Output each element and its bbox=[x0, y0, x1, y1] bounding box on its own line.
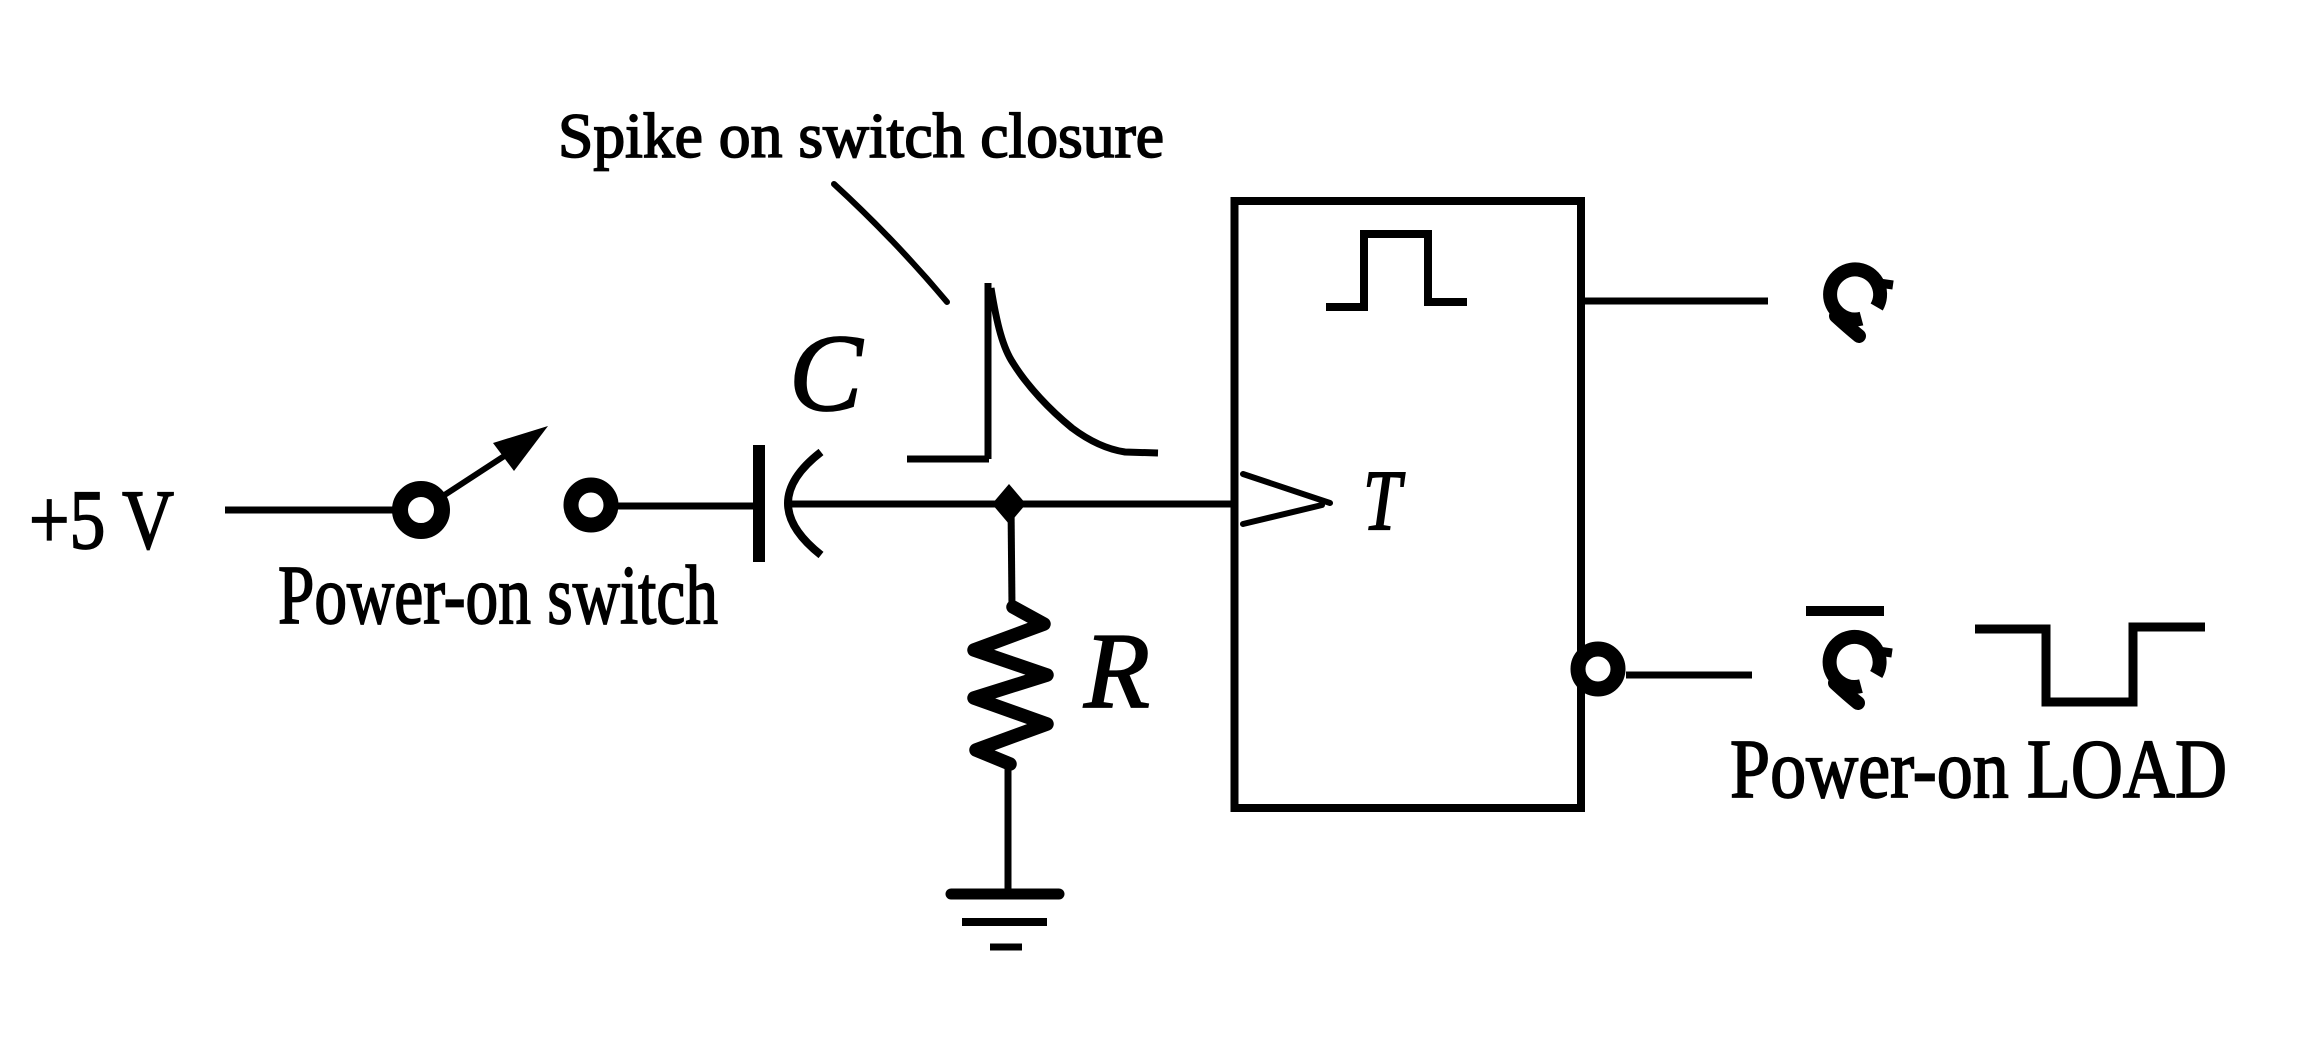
svg-text:T: T bbox=[1363, 452, 1405, 548]
svg-text:R: R bbox=[1083, 612, 1150, 731]
svg-text:C: C bbox=[789, 312, 864, 434]
svg-text:Spike on switch closure: Spike on switch closure bbox=[558, 100, 1164, 171]
svg-text:Power-on switch: Power-on switch bbox=[278, 549, 718, 642]
svg-text:+5 V: +5 V bbox=[29, 473, 174, 567]
svg-text:Power-on LOAD: Power-on LOAD bbox=[1730, 723, 2227, 816]
